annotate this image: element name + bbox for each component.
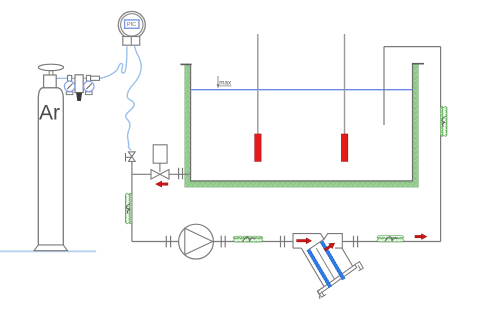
wire: top run [384,46,441,48]
tank inner contour [191,64,413,181]
arrow A2 in strainer body [297,238,312,244]
regulator gauge mounts [68,75,72,81]
svg-text:PIC: PIC [127,22,136,28]
needle valve V1 [126,152,136,162]
flange F1 [166,236,170,248]
gauge G1 [64,81,74,91]
liquid level line [191,89,413,91]
tank right wall cap [412,63,424,65]
wire: vertical pipe left [131,162,133,242]
dip tube [383,47,385,125]
arrow A1 under valve [156,181,168,187]
strainer S1 body [293,234,342,250]
tank left wall cap [180,63,191,65]
regulator knob [76,93,82,101]
gas cylinder base [34,245,68,251]
control valve V2 actuator [153,145,167,163]
strainer S1 screen stripes [308,250,330,288]
electrode E2 rod [344,34,346,135]
electrode E1 rod [257,34,259,135]
wire: bottom pipe [132,241,441,243]
gauge G2 [84,81,94,91]
flange F3 [281,236,285,248]
regulator center block [75,75,83,93]
instrument PIC circle [118,11,145,38]
flange F2 [221,236,225,248]
electrode E2 red tip [341,134,347,161]
control valve V2 bowtie [151,170,169,180]
hose compensator H1 (left riser) [125,193,131,224]
flange F4 [354,236,358,248]
regulator supply line [56,77,99,79]
flange F5 at tank inlet [179,168,183,179]
arrow A3 on strainer pocket [323,241,336,253]
cylinder valve stem [49,71,53,75]
svg-text:max: max [219,80,232,87]
strainer S1 pocket [293,226,366,299]
pump P1 [179,224,214,259]
hose compensator H3 (bottom right) [377,236,404,242]
tank T1 green walls [185,64,419,187]
signal hose 1 regulator to PIC [100,46,127,78]
regulator outlet fitting [91,76,100,80]
regulator under-gauge blocks [66,92,73,95]
instrument PIC base [123,37,140,46]
arrow A4 bottom right [415,234,427,240]
hose compensator H4 (right riser) [440,106,447,136]
cylinder neck [44,75,57,88]
electrode E1 red tip [255,134,261,161]
gas cylinder body [38,88,63,245]
hose compensator H2 (bottom mid) [233,236,263,242]
ground line [0,250,96,252]
cylinder handwheel [38,64,63,70]
wire: branch to tank [132,173,191,175]
wire: right riser [440,47,442,242]
control valve V2 stem [159,163,161,172]
signal hose 2 PIC to valve [126,46,142,150]
svg-text:Ar: Ar [39,102,60,125]
level mark max [217,76,232,89]
